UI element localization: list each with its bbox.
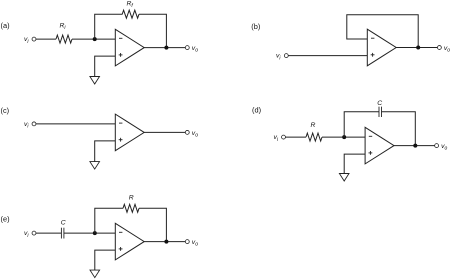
output node (a) xyxy=(164,46,168,50)
wire C to inverting input (e) xyxy=(64,232,115,234)
input terminal (c) xyxy=(32,122,36,126)
svg-text:(b): (b) xyxy=(251,22,260,31)
svg-text:R: R xyxy=(129,194,134,201)
node at inverting input (d) xyxy=(342,135,346,139)
svg-text:vi: vi xyxy=(276,53,281,62)
svg-text:Ri: Ri xyxy=(60,22,67,31)
op-amp U-d xyxy=(365,127,394,164)
output terminal (a) xyxy=(185,46,189,50)
svg-text:vo: vo xyxy=(192,45,198,54)
capacitor C (e) xyxy=(61,228,64,239)
input terminal (b) xyxy=(284,54,288,58)
resistor R (e) xyxy=(123,204,139,212)
op-amp U-c xyxy=(115,114,144,151)
output terminal (e) xyxy=(185,240,189,244)
resistor Rf xyxy=(122,10,139,18)
svg-text:vo: vo xyxy=(444,45,450,54)
wire Rf to output node (a) xyxy=(139,14,166,47)
output wire (d) xyxy=(394,145,435,147)
output terminal (b) xyxy=(437,46,441,50)
output node (d) xyxy=(413,144,417,148)
wire node up to capacitor (d) xyxy=(344,112,379,137)
output wire (c) xyxy=(144,131,185,133)
wire node up to feedback (e) xyxy=(95,208,123,233)
wire noninverting input to ground (e) xyxy=(95,250,116,270)
svg-text:C: C xyxy=(61,219,66,226)
wire Ri to inverting input xyxy=(72,38,115,40)
svg-text:vi: vi xyxy=(274,134,279,143)
wire R to output node (e) xyxy=(139,208,166,241)
wire noninverting input to ground (a) xyxy=(95,56,116,76)
svg-text:Rf: Rf xyxy=(127,0,134,9)
wire input to noninverting input (b) xyxy=(288,55,367,57)
svg-text:vi: vi xyxy=(24,36,29,45)
svg-text:(c): (c) xyxy=(1,106,10,115)
output wire (b) xyxy=(396,47,437,49)
svg-text:(d): (d) xyxy=(252,105,261,114)
op-amp U-e xyxy=(115,223,144,260)
op-amp U-a xyxy=(115,29,144,66)
wire capacitor to output node (d) xyxy=(382,112,416,146)
node at inverting input (e) xyxy=(93,231,97,235)
resistor Ri xyxy=(56,35,72,43)
wire input to Ri xyxy=(36,38,56,40)
ground (c) xyxy=(90,162,100,170)
svg-text:vi: vi xyxy=(24,121,29,130)
output wire (e) xyxy=(144,241,185,243)
output node (b) xyxy=(416,46,420,50)
svg-text:vo: vo xyxy=(441,143,447,152)
svg-text:C: C xyxy=(377,100,382,107)
svg-text:(e): (e) xyxy=(1,214,10,223)
input terminal (a) xyxy=(32,37,36,41)
output terminal (d) xyxy=(435,144,439,148)
svg-text:vo: vo xyxy=(192,130,198,139)
resistor R (d) xyxy=(306,133,322,141)
ground (e) xyxy=(90,270,100,278)
wire inverting input feedback loop (b) xyxy=(347,15,418,48)
node at inverting input (a) xyxy=(93,37,97,41)
svg-text:R: R xyxy=(311,122,316,129)
op-amp U-b xyxy=(367,29,396,66)
output node (e) xyxy=(164,240,168,244)
input terminal (e) xyxy=(32,231,36,235)
wire noninverting input to ground (d) xyxy=(344,154,365,173)
wire R to inverting input (d) xyxy=(322,136,365,138)
svg-text:(a): (a) xyxy=(1,21,10,30)
wire input to C (e) xyxy=(36,232,62,234)
output terminal (c) xyxy=(185,130,189,134)
svg-text:vi: vi xyxy=(24,230,29,239)
wire input to R (d) xyxy=(285,136,306,138)
wire node up to feedback (a) xyxy=(95,14,123,39)
ground (a) xyxy=(90,77,100,85)
output wire (a) xyxy=(144,47,185,49)
capacitor C (d) xyxy=(379,107,382,117)
ground (d) xyxy=(339,174,349,182)
wire noninverting input to ground (c) xyxy=(95,141,116,162)
wire input to inverting input (c) xyxy=(36,123,116,125)
svg-text:vo: vo xyxy=(192,239,198,248)
input terminal (d) xyxy=(282,135,286,139)
